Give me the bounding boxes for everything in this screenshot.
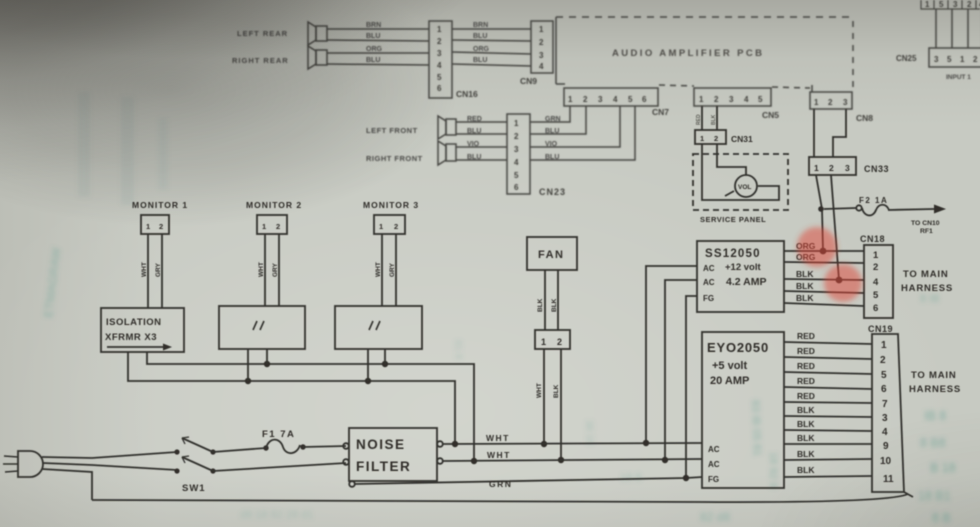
wire ORG SS12050 to CN18 pin1	[784, 250, 864, 252]
svg-text:2: 2	[714, 134, 718, 143]
svg-text:2: 2	[828, 98, 833, 107]
wire box3 right to A	[384, 349, 386, 364]
wire BRN left rear to CN16 pin1	[327, 28, 429, 30]
svg-text:4: 4	[873, 277, 879, 288]
svg-text:MONITOR 2: MONITOR 2	[246, 200, 302, 210]
wire BLU CN16 to CN9 pin2	[452, 40, 531, 41]
svg-text:3: 3	[598, 95, 603, 104]
svg-text:CN16: CN16	[456, 89, 478, 99]
wire BLK EY02050 to CN19 pin11	[784, 476, 872, 477]
svg-text:1: 1	[541, 337, 546, 347]
svg-text:2: 2	[514, 132, 519, 141]
svg-text:F2 1A: F2 1A	[859, 196, 888, 205]
wire RED EY02050 to CN19 pin2	[784, 357, 872, 359]
svg-text:4: 4	[437, 61, 442, 70]
connector CN33	[809, 157, 856, 175]
svg-text:BLU: BLU	[467, 154, 481, 161]
monitor 2 connector	[257, 215, 287, 234]
svg-text:3: 3	[934, 55, 939, 64]
svg-text:GRY: GRY	[389, 262, 396, 277]
wire GRY monitor1	[161, 234, 163, 308]
svg-text:4.2 AMP: 4.2 AMP	[726, 276, 766, 288]
svg-text:6: 6	[873, 303, 878, 314]
svg-text:AUDIO AMPLIFIER PCB: AUDIO AMPLIFIER PCB	[612, 48, 764, 59]
svg-text:2: 2	[437, 37, 442, 46]
junction B monitor3	[365, 378, 371, 384]
wire RED EY02050 to CN19 pin1	[784, 342, 872, 344]
junction A monitor3	[382, 361, 388, 367]
svg-text:F1 7A: F1 7A	[262, 429, 295, 440]
svg-text:2: 2	[873, 262, 878, 273]
svg-text:20 AMP: 20 AMP	[710, 375, 749, 387]
wire CN5 pin1 to CN31 pin1	[701, 106, 703, 130]
wire GRN CN23 to CN7 pin1	[530, 106, 570, 122]
fuse F2 wire	[824, 208, 856, 209]
svg-text:FG: FG	[703, 294, 714, 303]
wire BLU CN16 to CN9 pin4	[452, 64, 531, 66]
wire to CN25 pin	[967, 9, 969, 48]
svg-text:WHT: WHT	[258, 262, 265, 277]
svg-text:8 B8: 8 B8	[920, 436, 946, 450]
wire VIO right front to CN23 pin3	[456, 146, 507, 148]
svg-text:2: 2	[829, 163, 834, 173]
svg-text:RED: RED	[797, 361, 815, 371]
junction fuse branch	[818, 206, 824, 212]
isolation transformer 2 ditto box	[219, 306, 305, 349]
connector CN8 stub	[811, 85, 813, 92]
svg-text:CN18: CN18	[860, 234, 885, 244]
top right partial connector	[921, 0, 980, 9]
svg-text:CN8: CN8	[856, 113, 873, 123]
label TO MAIN HARNESS lower	[909, 370, 961, 395]
svg-text:5: 5	[873, 290, 879, 301]
wire BLU CN23 to CN7 pin2	[530, 106, 586, 134]
svg-text:IB 8: IB 8	[924, 409, 946, 423]
connector CN16	[429, 21, 452, 98]
svg-text:BLK: BLK	[537, 298, 544, 312]
svg-text:3: 3	[882, 413, 888, 424]
svg-text:MONITOR 3: MONITOR 3	[363, 200, 419, 210]
svg-text:+12 volt: +12 volt	[725, 262, 761, 273]
svg-text:RED: RED	[797, 376, 815, 386]
plug cable line 2	[43, 463, 177, 470]
wire BLK EY02050 to CN19 pin3	[784, 416, 872, 417]
wire ORG CN16 to CN9 pin3	[452, 52, 531, 54]
wire RED EY02050 to CN19 pin6	[784, 387, 872, 389]
svg-text:BLU: BLU	[467, 128, 481, 135]
ground bottom line	[92, 494, 908, 502]
svg-text:BLK: BLK	[797, 433, 815, 443]
svg-text:BLK: BLK	[797, 465, 815, 475]
plug cable line 1	[42, 452, 177, 458]
svg-text:FAN: FAN	[538, 249, 565, 261]
svg-text:5: 5	[939, 0, 944, 9]
connector CN5	[694, 88, 771, 106]
monitor 1 connector	[141, 215, 169, 234]
svg-text:3: 3	[514, 145, 519, 154]
svg-text:2: 2	[394, 222, 398, 231]
svg-text:3: 3	[729, 95, 734, 104]
wire WHT monitor1	[147, 234, 149, 308]
svg-text:11: 11	[883, 474, 894, 485]
svg-text:+5 volt: +5 volt	[712, 360, 747, 372]
wire switch to fuse	[213, 448, 266, 452]
wire box2 right to A	[266, 349, 268, 364]
svg-text:3: 3	[539, 51, 544, 60]
wire RED EY02050 to CN19 pin5	[784, 372, 872, 374]
service panel dashed box	[693, 154, 788, 210]
wire CN33 pin1 down to ORG node	[816, 175, 823, 251]
svg-text:SW1: SW1	[182, 483, 206, 494]
wire CN8 pin1 to CN33 pin1	[813, 109, 815, 157]
wire BLU left front to CN23 pin2	[456, 133, 507, 135]
svg-text:1: 1	[539, 25, 544, 34]
svg-text:RIGHT REAR: RIGHT REAR	[232, 56, 289, 65]
svg-text:BLK: BLK	[796, 293, 814, 303]
svg-text:1: 1	[262, 222, 266, 231]
switch SW1 pole 2	[174, 456, 215, 474]
svg-text:RED: RED	[696, 114, 702, 125]
svg-text:2: 2	[583, 95, 588, 104]
svg-text:BLU: BLU	[366, 57, 380, 64]
power supply SS12050	[697, 241, 784, 312]
speaker right front	[438, 141, 456, 165]
svg-text:1: 1	[881, 340, 887, 351]
connector CN19	[872, 334, 913, 497]
svg-text:INPUT 1: INPUT 1	[946, 74, 971, 81]
svg-text:BLK: BLK	[553, 384, 560, 398]
svg-text:6: 6	[437, 84, 442, 93]
labels BLK BLK	[537, 298, 558, 312]
svg-text:2: 2	[973, 55, 978, 64]
svg-text:CN31: CN31	[731, 134, 753, 144]
speaker left rear	[308, 22, 327, 45]
wire BLU right front to CN23 pin4	[456, 159, 507, 161]
svg-text:WHT: WHT	[486, 433, 510, 443]
svg-text:3: 3	[845, 163, 850, 173]
wire BLK fan	[557, 270, 559, 330]
svg-text:HARNESS: HARNESS	[909, 384, 961, 395]
wire box2 left to B	[247, 349, 249, 381]
labels WHT GRY	[258, 262, 279, 277]
svg-text:7: 7	[882, 399, 888, 410]
wire SS12050 FG down	[686, 296, 697, 478]
svg-text:6: 6	[881, 384, 887, 395]
svg-text:CN23: CN23	[539, 187, 566, 197]
labels WHT BLK	[536, 383, 560, 398]
svg-text:4: 4	[514, 158, 519, 167]
svg-text:4: 4	[613, 95, 618, 104]
power supply EY02050	[702, 332, 784, 488]
wire GRN	[354, 477, 702, 484]
svg-text:2: 2	[276, 222, 280, 231]
svg-text:BLK: BLK	[796, 269, 814, 279]
svg-text:AC: AC	[708, 445, 720, 454]
wire BLK SS12050 to CN18 pin6	[784, 303, 864, 306]
svg-text:6: 6	[514, 183, 519, 192]
svg-text:SS12050: SS12050	[705, 248, 761, 260]
fuse F1	[263, 440, 305, 454]
svg-text:2: 2	[539, 38, 544, 47]
wire BLK fan	[544, 270, 546, 330]
svg-text:1: 1	[814, 163, 819, 173]
svg-text:BLU: BLU	[473, 33, 487, 40]
junction fan BLK	[558, 457, 564, 463]
wire BLK EY02050 to CN19 pin4	[784, 430, 872, 431]
wire WHT monitor3	[381, 234, 383, 306]
svg-text:CN5: CN5	[762, 110, 779, 120]
wire BLK EY02050 to CN19 pin10	[784, 459, 872, 460]
svg-text:4: 4	[744, 95, 749, 104]
highlight red dot 2	[824, 264, 862, 302]
svg-text:1: 1	[925, 0, 930, 9]
switch SW1 pole 1	[174, 437, 215, 455]
junction AC1	[643, 440, 649, 446]
svg-text:VIO: VIO	[545, 141, 558, 148]
svg-text:1: 1	[146, 222, 150, 231]
svg-text:BLK: BLK	[797, 419, 815, 429]
svg-text:ISOLATION: ISOLATION	[106, 317, 162, 328]
wire SS12050 AC1 down	[646, 266, 697, 443]
svg-text:CN19: CN19	[868, 324, 893, 334]
svg-text:4: 4	[882, 427, 888, 438]
junction busA to WHT2	[471, 458, 477, 464]
svg-text:FG: FG	[708, 475, 719, 484]
svg-text:CN7: CN7	[652, 107, 669, 117]
speaker left front	[438, 116, 456, 139]
svg-text:83 IB 05 81: 83 IB 05 81	[749, 400, 763, 457]
tiny wire labels	[696, 114, 717, 125]
svg-text:2: 2	[880, 355, 886, 366]
svg-text:GRY: GRY	[272, 262, 279, 277]
connector CN8	[810, 92, 852, 109]
svg-text:5: 5	[628, 95, 633, 104]
svg-text:5: 5	[947, 55, 952, 64]
svg-text:2: 2	[557, 337, 562, 347]
wire BLK SS12050 to CN18 pin4	[784, 279, 864, 280]
svg-text:LEFT REAR: LEFT REAR	[237, 29, 288, 38]
wire WHT fan conn to bus	[543, 349, 545, 444]
svg-text:5: 5	[437, 73, 442, 82]
wire CN33 pin2 down to BLK node	[831, 175, 839, 280]
labels WHT GRY	[375, 262, 396, 277]
connector CN9	[531, 21, 553, 73]
wire RED left front to CN23 pin1	[456, 121, 507, 123]
svg-text:NOISE: NOISE	[356, 437, 406, 452]
svg-text:82 d8: 82 d8	[700, 510, 730, 524]
svg-text:BLK: BLK	[797, 405, 815, 415]
svg-text:2: 2	[159, 222, 163, 231]
GHOST-TEXT-LAYER	[41, 92, 956, 525]
svg-text:TO MAIN: TO MAIN	[911, 370, 957, 381]
wire fuse to noise filter	[303, 446, 346, 447]
svg-text:RED: RED	[467, 116, 482, 123]
wire to CN25 pin	[935, 9, 937, 48]
connector CN18	[864, 245, 893, 318]
svg-text:WHT: WHT	[536, 383, 543, 398]
svg-text:3: 3	[437, 49, 442, 58]
TOP-SECTION	[232, 0, 980, 197]
svg-text:RIGHT FRONT: RIGHT FRONT	[366, 154, 423, 163]
svg-text:TO CN10: TO CN10	[911, 220, 940, 227]
wire BLK fan conn to bus	[560, 349, 562, 460]
junction A monitor2	[264, 361, 270, 367]
svg-text:RED: RED	[797, 331, 815, 341]
wire GRY monitor2	[278, 234, 280, 306]
svg-text:9: 9	[883, 441, 889, 452]
svg-text:B 18: B 18	[930, 461, 956, 475]
svg-text:BLK: BLK	[711, 114, 717, 125]
svg-text:BLU: BLU	[366, 33, 380, 40]
arrowhead to CN10	[934, 205, 946, 214]
svg-text:5: 5	[758, 95, 763, 104]
svg-text:BLK: BLK	[551, 298, 558, 312]
wire BLK SS12050 to CN18 pin5	[784, 291, 864, 293]
junction AC2	[662, 457, 668, 463]
svg-text:GRY: GRY	[155, 262, 162, 277]
node ORG junction	[820, 248, 827, 255]
svg-text:CN25: CN25	[896, 54, 917, 63]
svg-text:MONITOR 1: MONITOR 1	[132, 200, 188, 210]
connector CN23	[507, 114, 530, 194]
svg-text:BLU: BLU	[473, 57, 487, 64]
svg-text:18 B1: 18 B1	[918, 489, 951, 503]
wire WHT monitor2	[264, 234, 266, 306]
wire CN8 pin3 to CN33 pin2	[833, 109, 846, 157]
fan box	[527, 237, 577, 270]
wire SS12050 AC2 down	[665, 280, 697, 460]
svg-text:SERVICE PANEL: SERVICE PANEL	[700, 215, 766, 224]
svg-text:1: 1	[873, 250, 879, 261]
svg-text:AC: AC	[708, 460, 720, 469]
svg-text:ORG: ORG	[366, 46, 383, 53]
wire WHT bus lower	[443, 459, 702, 461]
svg-text:2: 2	[714, 95, 719, 104]
svg-text:WHT: WHT	[141, 262, 148, 277]
svg-text:BLU: BLU	[545, 128, 559, 135]
svg-text:8 B: 8 B	[932, 511, 951, 525]
junction busB to WHT	[452, 441, 458, 447]
svg-text:LEFT FRONT: LEFT FRONT	[366, 126, 418, 135]
wire BLU left rear to CN16 pin2	[327, 40, 429, 41]
svg-text:1: 1	[568, 95, 573, 104]
wire WHT bus upper	[443, 443, 702, 444]
junction fan WHT	[541, 441, 547, 447]
wire switch to noise filter lower	[213, 463, 346, 471]
wire ORG SS12050 to CN18 pin2	[784, 262, 864, 263]
svg-text:1: 1	[379, 222, 383, 231]
svg-text:RED: RED	[797, 346, 815, 356]
svg-text:BRN: BRN	[473, 22, 488, 29]
svg-text:81 8: 81 8	[452, 340, 464, 360]
svg-text:CN9: CN9	[520, 76, 537, 86]
svg-text:1: 1	[437, 25, 442, 34]
svg-text:BRN: BRN	[366, 22, 381, 29]
monitor bus line B	[128, 352, 455, 444]
labels WHT GRY	[141, 262, 162, 277]
pot VOL	[702, 144, 779, 200]
svg-text:GRN: GRN	[545, 116, 561, 123]
label TO MAIN HARNESS	[901, 269, 953, 294]
svg-text:1: 1	[960, 55, 965, 64]
svg-text:XFRMR X3: XFRMR X3	[105, 332, 157, 343]
svg-text:RED: RED	[797, 391, 815, 401]
svg-text:38 18: 38 18	[583, 420, 595, 446]
wire BLK EY02050 to CN19 pin9	[784, 443, 872, 445]
svg-text:18 92 8: 18 92 8	[767, 452, 779, 489]
svg-text:VIO: VIO	[467, 141, 480, 148]
svg-text:WHT: WHT	[487, 450, 511, 460]
svg-text:3: 3	[953, 0, 958, 9]
svg-text:1: 1	[514, 119, 519, 128]
monitor bus line A	[147, 352, 474, 461]
svg-text:GRN: GRN	[489, 479, 512, 489]
svg-text:2: 2	[967, 0, 972, 9]
svg-text:HARNESS: HARNESS	[901, 283, 953, 294]
svg-text:3: 3	[843, 98, 848, 107]
svg-text:1: 1	[699, 95, 704, 104]
svg-text:BLK: BLK	[796, 281, 814, 291]
speaker right rear	[308, 46, 327, 69]
wire GRY monitor3	[395, 234, 397, 306]
svg-text:BLK: BLK	[797, 449, 815, 459]
wire BLU CN23 to CN7 pin5	[530, 106, 635, 160]
svg-text:5: 5	[514, 171, 519, 180]
fan connector	[535, 330, 570, 349]
svg-text:VOL: VOL	[738, 184, 751, 191]
svg-text:ORG: ORG	[473, 46, 490, 53]
wire RED EY02050 to CN19 pin7	[784, 402, 872, 403]
isolation transformer box	[101, 308, 184, 352]
junction FG	[683, 475, 689, 481]
monitor 3 connector	[374, 215, 405, 234]
svg-text:TO MAIN: TO MAIN	[903, 269, 949, 280]
svg-text:1: 1	[814, 98, 819, 107]
svg-text:AC: AC	[703, 278, 715, 287]
MAIN-SECTION	[3, 106, 961, 502]
connector CN7	[564, 88, 658, 106]
audio amplifier PCB dashed box	[556, 17, 853, 92]
svg-text:BLU: BLU	[545, 154, 559, 161]
wire CN5 pin2 to CN31 pin2	[716, 106, 718, 130]
svg-text:RF1: RF1	[920, 228, 933, 235]
svg-text:5: 5	[881, 370, 887, 381]
svg-text:ETMAGRAW: ETMAGRAW	[41, 246, 64, 318]
fuse F2	[856, 205, 934, 216]
plug cable line 3 to ground	[42, 469, 92, 500]
wire to CN25 pin	[951, 9, 953, 48]
wire ORG right rear to CN16 pin3	[327, 52, 429, 54]
AC plug	[3, 451, 43, 477]
noise filter box	[343, 428, 443, 487]
connector CN31	[695, 130, 726, 144]
connector CN25	[929, 48, 980, 67]
node BLK junction	[836, 277, 843, 284]
svg-text:4: 4	[539, 62, 544, 71]
wire BRN CN16 to CN9 pin1	[452, 28, 531, 30]
wire box3 left to B	[367, 349, 369, 381]
svg-text:FILTER: FILTER	[356, 459, 411, 474]
svg-text:CN33: CN33	[864, 164, 889, 174]
svg-text:6: 6	[642, 95, 647, 104]
svg-text:EYO2050: EYO2050	[707, 340, 769, 355]
svg-text:WHT: WHT	[375, 262, 382, 277]
junction B monitor2	[245, 378, 251, 384]
svg-text:10: 10	[880, 456, 892, 467]
svg-text:8 IB: 8 IB	[920, 293, 940, 305]
wire BLU right rear to CN16 pin4	[327, 64, 429, 65]
svg-text:1: 1	[700, 134, 704, 143]
